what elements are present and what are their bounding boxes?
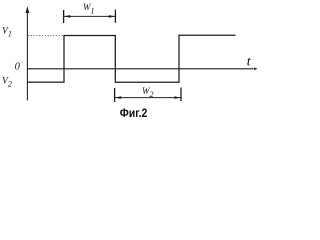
svg-text:0: 0	[15, 62, 21, 73]
svg-text:W1: W1	[83, 2, 95, 15]
svg-text:V2: V2	[2, 77, 12, 89]
svg-text:t: t	[247, 54, 252, 69]
svg-text:Фиг.2: Фиг.2	[120, 106, 148, 120]
svg-text:W2: W2	[142, 86, 154, 99]
svg-text:V1: V1	[2, 27, 12, 39]
